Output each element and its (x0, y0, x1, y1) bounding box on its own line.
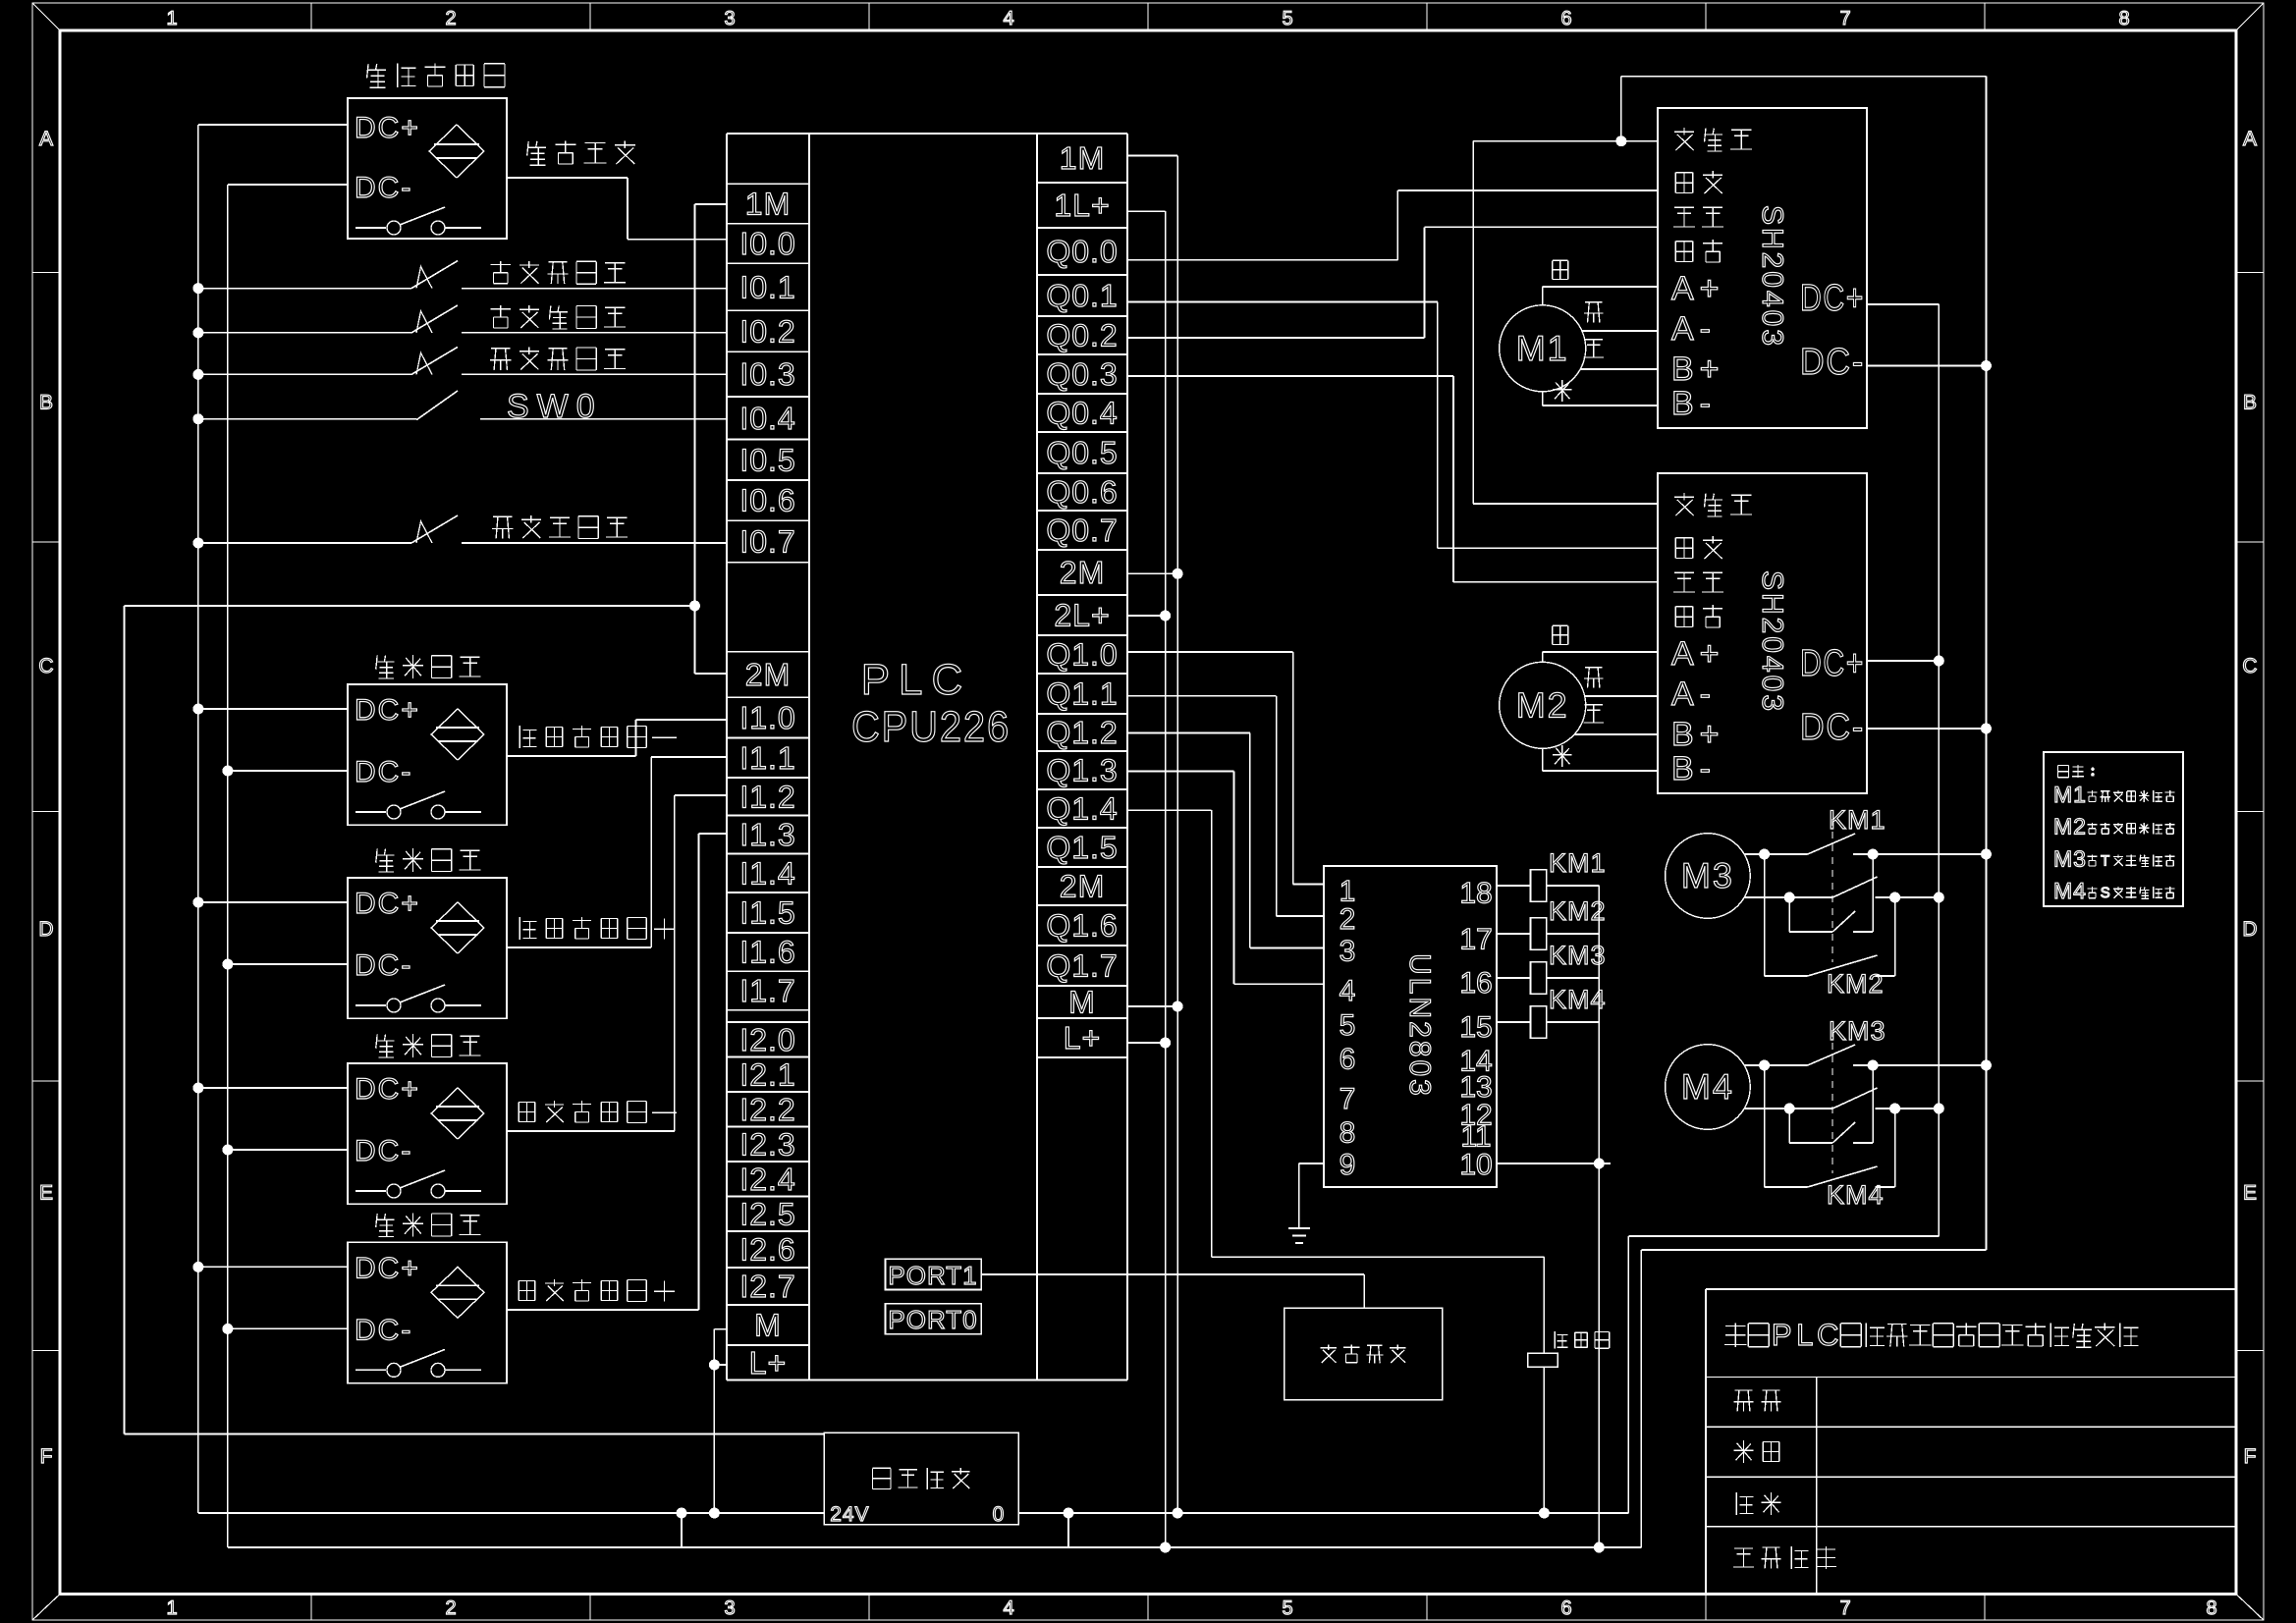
svg-text:4: 4 (1339, 975, 1356, 1007)
svg-text:L+: L+ (1064, 1020, 1101, 1055)
svg-text:Q1.2: Q1.2 (1046, 715, 1118, 750)
svg-text:Q0.1: Q0.1 (1046, 278, 1118, 313)
svg-text:KM4: KM4 (1549, 985, 1607, 1014)
svg-text:M1: M1 (2053, 782, 2087, 807)
svg-text:F: F (2244, 1445, 2257, 1468)
svg-text:I2.5: I2.5 (739, 1196, 795, 1231)
svg-text:Q1.4: Q1.4 (1046, 791, 1118, 827)
svg-text:Q0.2: Q0.2 (1046, 318, 1118, 353)
svg-text:I1.3: I1.3 (739, 817, 795, 852)
svg-text:B-: B- (1671, 750, 1717, 787)
svg-text:2M: 2M (745, 657, 791, 692)
svg-text:KM2: KM2 (1827, 969, 1885, 999)
svg-text:6: 6 (1560, 1597, 1571, 1619)
svg-text:1: 1 (166, 8, 177, 29)
svg-text:1M: 1M (1060, 140, 1105, 176)
svg-text:5: 5 (1282, 8, 1292, 29)
svg-text:I2.4: I2.4 (739, 1162, 795, 1197)
svg-text:4: 4 (1003, 1597, 1013, 1619)
svg-text:I1.7: I1.7 (739, 973, 795, 1008)
svg-text:8: 8 (1339, 1117, 1356, 1150)
svg-text:I2.7: I2.7 (739, 1269, 795, 1304)
svg-text:I0.7: I0.7 (739, 524, 795, 560)
svg-text:2: 2 (1339, 903, 1356, 936)
svg-text:M: M (754, 1308, 782, 1343)
svg-text:I2.0: I2.0 (739, 1022, 795, 1057)
svg-text:5: 5 (1339, 1009, 1356, 1042)
svg-text:I2.1: I2.1 (739, 1056, 795, 1092)
svg-text:I2.3: I2.3 (739, 1126, 795, 1162)
svg-text:2L+: 2L+ (1054, 598, 1110, 633)
svg-text:DC-: DC- (355, 172, 412, 204)
svg-text:DC-: DC- (1800, 342, 1865, 383)
svg-text:18: 18 (1459, 878, 1492, 910)
svg-text:B-: B- (1671, 385, 1717, 422)
svg-text:A+: A+ (1671, 635, 1725, 673)
svg-text:I0.5: I0.5 (739, 442, 795, 477)
svg-text:KM3: KM3 (1829, 1016, 1886, 1046)
svg-text:S: S (2101, 885, 2110, 901)
svg-text:A: A (39, 128, 53, 150)
svg-text:10: 10 (1459, 1149, 1492, 1181)
svg-text:Q0.6: Q0.6 (1046, 474, 1118, 510)
svg-text:I1.2: I1.2 (739, 779, 795, 814)
svg-text:DC-: DC- (355, 1314, 412, 1346)
svg-text:I2.6: I2.6 (739, 1232, 795, 1268)
svg-text:7: 7 (1339, 1083, 1356, 1115)
svg-text:4: 4 (1003, 8, 1013, 29)
svg-text:I0.2: I0.2 (739, 313, 795, 349)
svg-text:6: 6 (1339, 1043, 1356, 1075)
svg-text:17: 17 (1459, 923, 1492, 955)
svg-text:I1.6: I1.6 (739, 935, 795, 970)
svg-text:C: C (38, 655, 53, 677)
svg-text:L: L (1796, 1318, 1813, 1352)
svg-text:A-: A- (1671, 310, 1717, 348)
svg-text:M2: M2 (1516, 684, 1569, 725)
svg-text:Q0.0: Q0.0 (1046, 234, 1118, 269)
svg-text:1M: 1M (745, 187, 791, 222)
svg-text:Q0.5: Q0.5 (1046, 435, 1118, 470)
svg-text:DC+: DC+ (355, 112, 420, 144)
svg-text:Q1.1: Q1.1 (1046, 676, 1118, 712)
svg-text:15: 15 (1459, 1011, 1492, 1044)
svg-text:CPU226: CPU226 (851, 703, 1011, 751)
svg-text:2M: 2M (1060, 869, 1105, 904)
svg-text:M3: M3 (2053, 845, 2087, 871)
svg-text:8: 8 (2118, 8, 2129, 29)
svg-text:16: 16 (1459, 967, 1492, 1000)
svg-text:2M: 2M (1060, 555, 1105, 590)
svg-text:3: 3 (1339, 936, 1356, 968)
svg-text:Q1.3: Q1.3 (1046, 753, 1118, 788)
svg-text:Q1.0: Q1.0 (1046, 637, 1118, 673)
svg-text:Q0.4: Q0.4 (1046, 396, 1118, 431)
svg-text:I0.4: I0.4 (739, 401, 795, 436)
svg-text:DC+: DC+ (355, 1252, 420, 1284)
svg-text:2: 2 (445, 8, 456, 29)
svg-text:C: C (2242, 655, 2257, 677)
svg-text:SH20403: SH20403 (1756, 205, 1788, 349)
svg-text:DC+: DC+ (355, 694, 420, 727)
svg-text:3: 3 (724, 8, 735, 29)
svg-text:M4: M4 (2053, 878, 2087, 903)
svg-text:I1.4: I1.4 (739, 855, 795, 891)
svg-text:M1: M1 (1516, 328, 1569, 368)
svg-text:KM1: KM1 (1829, 805, 1886, 835)
svg-text:A-: A- (1671, 676, 1717, 713)
svg-text:E: E (2243, 1182, 2257, 1205)
svg-text:1: 1 (166, 1597, 177, 1619)
svg-text:M2: M2 (2053, 814, 2087, 839)
svg-text:T: T (2101, 852, 2109, 869)
svg-text:DC+: DC+ (355, 1073, 420, 1106)
svg-text:L+: L+ (749, 1345, 787, 1380)
svg-text:Q0.3: Q0.3 (1046, 356, 1118, 392)
svg-text:I0.6: I0.6 (739, 483, 795, 518)
svg-text:5: 5 (1282, 1597, 1292, 1619)
svg-text:KM2: KM2 (1549, 896, 1607, 926)
svg-text:6: 6 (1560, 8, 1571, 29)
svg-text:I0.0: I0.0 (739, 226, 795, 261)
svg-text:B+: B+ (1671, 716, 1725, 753)
svg-text:7: 7 (1839, 8, 1850, 29)
svg-text:D: D (2242, 918, 2257, 941)
svg-text:1L+: 1L+ (1054, 188, 1110, 223)
svg-text:E: E (39, 1182, 53, 1205)
svg-text:Q1.7: Q1.7 (1046, 948, 1118, 984)
svg-text:I1.1: I1.1 (739, 740, 795, 776)
svg-text:P: P (1772, 1318, 1792, 1352)
svg-text:Q1.5: Q1.5 (1046, 830, 1118, 865)
svg-text:DC-: DC- (1800, 707, 1865, 748)
svg-text:SH20403: SH20403 (1756, 570, 1788, 714)
svg-text:Q1.6: Q1.6 (1046, 908, 1118, 944)
svg-text:I1.5: I1.5 (739, 895, 795, 931)
svg-text:B: B (39, 391, 53, 413)
svg-text:B: B (2243, 391, 2257, 413)
svg-text:I0.3: I0.3 (739, 356, 795, 392)
svg-text:DC+: DC+ (355, 888, 420, 920)
svg-text:A+: A+ (1671, 270, 1725, 307)
svg-text:I1.0: I1.0 (739, 700, 795, 735)
svg-text:DC+: DC+ (1800, 643, 1865, 684)
svg-text:B+: B+ (1671, 351, 1725, 388)
svg-text:8: 8 (2206, 1597, 2216, 1619)
svg-text:DC+: DC+ (1800, 278, 1865, 319)
svg-text:2: 2 (445, 1597, 456, 1619)
svg-text:9: 9 (1339, 1149, 1356, 1181)
svg-text:M4: M4 (1681, 1066, 1734, 1107)
svg-text:SW0: SW0 (507, 388, 603, 425)
svg-text:PORT0: PORT0 (888, 1305, 977, 1334)
svg-text:KM3: KM3 (1549, 941, 1607, 970)
svg-text:I2.2: I2.2 (739, 1092, 795, 1127)
svg-text:M3: M3 (1681, 855, 1734, 895)
svg-text:KM1: KM1 (1549, 848, 1607, 878)
svg-text:F: F (40, 1445, 53, 1468)
svg-text:3: 3 (724, 1597, 735, 1619)
svg-text:I0.1: I0.1 (739, 269, 795, 304)
svg-text:D: D (38, 918, 53, 941)
svg-text:KM4: KM4 (1827, 1180, 1885, 1210)
svg-text:PORT1: PORT1 (888, 1261, 977, 1290)
svg-text:ULN2803: ULN2803 (1403, 953, 1436, 1099)
svg-text:24V: 24V (830, 1503, 869, 1526)
svg-text:PLC: PLC (861, 656, 972, 704)
svg-text:M: M (1068, 985, 1096, 1020)
svg-text:0: 0 (993, 1503, 1006, 1526)
svg-text:DC-: DC- (355, 1135, 412, 1167)
svg-text:C: C (1817, 1318, 1838, 1352)
svg-text:7: 7 (1839, 1597, 1850, 1619)
svg-text:DC-: DC- (355, 756, 412, 788)
svg-text:A: A (2243, 128, 2257, 150)
svg-text:DC-: DC- (355, 949, 412, 982)
svg-text:Q0.7: Q0.7 (1046, 513, 1118, 548)
